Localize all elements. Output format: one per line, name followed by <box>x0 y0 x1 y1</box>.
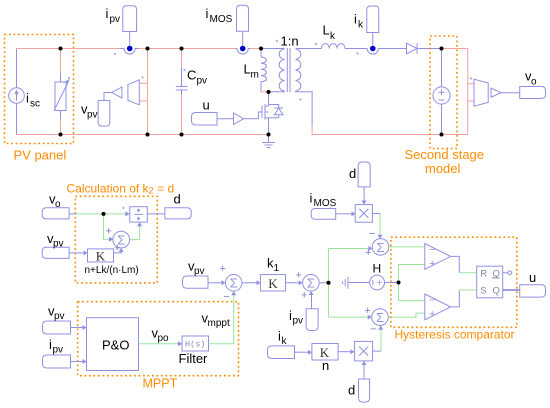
svg-text:sc: sc <box>30 99 40 110</box>
comparator U1 <box>425 244 451 270</box>
node vpv-sensor bottom <box>146 133 150 137</box>
svg-text:o: o <box>55 199 61 210</box>
wire top rail left red <box>17 48 120 50</box>
transformer 1:n primary <box>279 49 284 91</box>
wire v_pv to K <box>69 252 84 254</box>
divide block <box>130 207 148 222</box>
wire to v_o block <box>501 92 520 94</box>
wire to P&O in2 <box>71 361 84 363</box>
svg-text:1:n: 1:n <box>281 34 299 49</box>
svg-text:MOS: MOS <box>210 14 233 25</box>
d input block (bottom) <box>359 379 370 402</box>
v_pv input block (mid) <box>183 276 209 288</box>
node second-stage bottom <box>440 133 444 137</box>
u output block <box>520 285 546 297</box>
u input block <box>192 113 218 126</box>
P&O block <box>87 318 139 371</box>
svg-text:+: + <box>429 309 435 321</box>
sample marker <box>114 53 116 55</box>
sum S2 <box>225 275 242 292</box>
inductor L_k <box>321 44 345 49</box>
wire H to node <box>385 282 399 284</box>
svg-text:n: n <box>322 358 329 373</box>
i_pv input block (mppt) <box>43 355 71 368</box>
transformer secondary <box>296 49 301 91</box>
wire comp2 to S <box>451 290 460 307</box>
wire v_o to divide <box>69 213 76 215</box>
wire node down to sum <box>104 214 110 239</box>
svg-text:i: i <box>206 6 209 21</box>
sum S1 <box>113 231 130 248</box>
hysteresis box <box>391 237 517 327</box>
v_o sensor stubs <box>468 83 474 85</box>
wire left branch <box>16 49 18 88</box>
svg-text:mppt: mppt <box>208 318 230 329</box>
gain k1 block <box>260 275 285 291</box>
node C <box>327 281 331 285</box>
sample marker <box>122 207 124 209</box>
wire sensor to diode <box>378 48 406 50</box>
node second-stage top <box>440 47 444 51</box>
svg-text:L: L <box>323 23 330 38</box>
i_k input block <box>268 346 295 359</box>
svg-text:+: + <box>296 270 302 282</box>
RS flip-flop <box>477 266 503 298</box>
node R1 top <box>59 47 63 51</box>
svg-text:K: K <box>268 276 278 291</box>
MOSFET Q1 <box>261 106 263 119</box>
node k2 <box>102 212 106 216</box>
wire rail to transformer <box>261 48 285 50</box>
v_pv sensor branch red <box>147 49 149 135</box>
ground <box>268 135 270 143</box>
wire product to sum4 <box>372 213 380 215</box>
sample marker <box>356 52 358 54</box>
wire i_pv to sum2 <box>311 294 313 309</box>
wire k1 to sum2 <box>286 282 300 284</box>
svg-text:−: − <box>370 324 376 336</box>
svg-text:pv: pv <box>54 311 65 322</box>
node Lm top <box>259 47 263 51</box>
wire i_MOS to product <box>336 213 352 215</box>
i_k current sensor <box>367 49 378 55</box>
v_pv display block <box>98 101 110 127</box>
v_o display block <box>520 87 546 99</box>
sample marker <box>68 77 70 79</box>
wire diode to node <box>417 48 441 50</box>
svg-text:H: H <box>373 261 382 275</box>
svg-text:Hysteresis comparator: Hysteresis comparator <box>395 328 515 342</box>
node Q1 drain <box>267 90 271 94</box>
resistor R_pv (variable) <box>55 82 66 111</box>
filter H(s) block <box>182 336 209 351</box>
voltage source U_o <box>441 49 443 87</box>
svg-text:+: + <box>365 247 371 259</box>
svg-text:MOS: MOS <box>314 198 337 209</box>
svg-text:Σ: Σ <box>230 276 238 291</box>
H source <box>370 275 385 290</box>
svg-text:1: 1 <box>274 263 280 274</box>
svg-text:+: + <box>301 290 307 302</box>
Calculation box <box>75 196 157 283</box>
i_pv current sensor <box>120 48 125 50</box>
wire to P&O in1 <box>71 327 84 329</box>
sample marker <box>141 76 143 78</box>
svg-text:+: + <box>429 258 435 270</box>
svg-text:n+Lk/(n·Lm): n+Lk/(n·Lm) <box>85 265 139 276</box>
svg-text:Σ: Σ <box>377 240 385 255</box>
Qbar terminal <box>503 272 508 274</box>
wire to sum1 <box>208 282 222 284</box>
svg-text:K: K <box>96 248 106 263</box>
wire L_k to sensor <box>345 48 367 50</box>
wire to v_pv display <box>104 93 112 101</box>
d input block (top) <box>358 162 370 187</box>
wire comp1 to R <box>451 256 460 272</box>
svg-text:+: + <box>106 226 112 238</box>
wire product to sum5 <box>373 350 381 352</box>
wire d to product <box>363 187 365 201</box>
wire top rail right red <box>251 48 262 50</box>
wire node to sum5 <box>329 316 368 318</box>
transformer core <box>286 48 288 92</box>
sum S5 <box>372 309 389 326</box>
v_o input block <box>42 208 69 219</box>
svg-text:u: u <box>529 270 536 285</box>
node drain <box>267 90 271 94</box>
wire P&O to filter <box>139 343 179 345</box>
svg-text:Calculation of k2 = d: Calculation of k2 = d <box>67 182 175 197</box>
wire node to sum4 <box>329 248 369 250</box>
svg-text:C: C <box>187 68 196 83</box>
gate gain triangle <box>234 113 244 125</box>
ground (H) <box>348 282 370 284</box>
current source U_isc <box>9 88 25 104</box>
capacitor C_pv <box>181 49 183 68</box>
svg-text:−: − <box>224 291 230 303</box>
wire node to comp2 <box>399 283 425 301</box>
sample markers <box>276 40 278 42</box>
svg-text:+: + <box>114 243 120 255</box>
svg-text:−: − <box>429 244 435 256</box>
svg-text:P&O: P&O <box>102 338 129 353</box>
svg-text:d: d <box>174 192 181 207</box>
v_o sensor trapezoid <box>474 79 488 106</box>
PV panel box <box>5 35 74 144</box>
sample marker <box>470 77 472 79</box>
wire divide to d <box>147 213 165 215</box>
i_MOS input block <box>311 209 336 220</box>
wire top rail mid red <box>139 48 236 50</box>
wire filter to sum1 <box>209 295 234 344</box>
svg-text:−: − <box>429 295 435 307</box>
gain K block <box>88 249 114 262</box>
svg-text:+: + <box>365 305 371 317</box>
svg-text:Σ: Σ <box>307 276 315 291</box>
wire bottom rail red <box>17 134 269 136</box>
wire d to product <box>363 365 365 380</box>
wire K to sum <box>114 252 122 253</box>
node R1 bottom <box>59 133 63 137</box>
wire i_k to gain n <box>295 351 309 353</box>
svg-text:o: o <box>531 77 537 88</box>
wire gain to gate <box>244 112 263 119</box>
svg-text:Filter: Filter <box>179 351 209 366</box>
svg-text:pv: pv <box>194 266 205 277</box>
wire gain to product <box>338 351 351 353</box>
svg-text:Σ: Σ <box>376 310 384 325</box>
svg-text:m: m <box>251 70 259 81</box>
wire node A right red <box>442 49 468 135</box>
sample marker <box>299 98 301 100</box>
node A <box>440 47 444 51</box>
wire sum to divide <box>130 226 140 240</box>
node H <box>397 281 401 285</box>
svg-text:pv: pv <box>293 316 304 327</box>
inductor L_m <box>260 49 262 58</box>
i_MOS current sensor <box>236 48 238 50</box>
svg-text:MPPT: MPPT <box>143 377 178 391</box>
resistor R_pv leads <box>60 49 62 74</box>
wire sum1 to k1 <box>242 282 257 284</box>
node Q1 source <box>267 133 271 137</box>
svg-text:pv: pv <box>87 110 98 121</box>
svg-text:u: u <box>203 98 210 113</box>
wire sum4 to comp1 <box>389 246 425 248</box>
svg-text:+: + <box>220 263 226 275</box>
diode D1 <box>407 43 418 54</box>
gain triangle <box>112 87 122 98</box>
gain n block <box>312 344 338 361</box>
node k2 branch <box>102 212 106 216</box>
MPPT box <box>78 302 239 376</box>
wire secondary to L_k <box>296 48 322 50</box>
node error branch <box>327 281 331 285</box>
node dots top rail <box>59 47 63 51</box>
node Cpv bottom <box>180 133 184 137</box>
sum S3 <box>303 275 320 292</box>
wire node to comp1 <box>399 265 425 283</box>
v_o gain triangle <box>491 88 501 97</box>
i_pv input block (mid) <box>306 309 318 331</box>
svg-text:i: i <box>26 91 29 106</box>
svg-text:Second stage: Second stage <box>405 147 485 162</box>
svg-text:d: d <box>348 383 355 398</box>
svg-text:+: + <box>376 278 382 289</box>
v_pv input block (mppt) <box>43 321 71 334</box>
wire u to gain <box>217 118 234 120</box>
svg-text:pv: pv <box>53 345 64 356</box>
v_pv input block (calc) <box>42 247 69 258</box>
sample marker <box>183 69 185 71</box>
sum S4 <box>372 239 389 256</box>
svg-text:R: R <box>480 268 487 279</box>
node dots bottom rail <box>59 133 63 137</box>
node H branch <box>397 281 401 285</box>
svg-text:i: i <box>310 191 313 206</box>
svg-text:pv: pv <box>53 239 64 250</box>
svg-text:d: d <box>349 166 356 181</box>
product X2 <box>355 341 373 361</box>
svg-text:pv: pv <box>197 76 208 87</box>
node Cpv top <box>180 47 184 51</box>
node vpv-sensor top <box>146 47 150 51</box>
wire sum2 to node <box>319 282 328 284</box>
svg-text:PV panel: PV panel <box>14 148 67 163</box>
wire Q to u <box>503 289 520 291</box>
svg-text:pv: pv <box>110 14 121 25</box>
svg-text:H(s): H(s) <box>185 339 205 349</box>
svg-text:S: S <box>480 286 486 297</box>
svg-text:model: model <box>425 161 461 176</box>
voltage sensor trapezoid <box>128 80 139 105</box>
wire sum5 to comp2 <box>388 313 425 317</box>
wire node up/down <box>328 249 330 318</box>
svg-text:i: i <box>354 12 357 27</box>
node B <box>440 133 444 137</box>
product X1 <box>355 205 372 223</box>
svg-text:−: − <box>369 228 375 240</box>
svg-text:Q: Q <box>493 286 500 297</box>
svg-text:i: i <box>106 6 109 21</box>
svg-text:po: po <box>158 333 170 344</box>
comparator U2 <box>425 294 451 320</box>
body diode <box>269 105 279 109</box>
second stage box <box>430 36 457 149</box>
d output block <box>165 208 191 219</box>
